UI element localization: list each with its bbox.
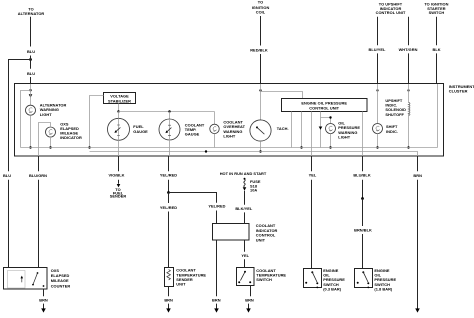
wire YEL to oil switch (311, 180, 313, 269)
wire BLU into cluster (30, 58, 32, 84)
svg-text:STABILIZER: STABILIZER (108, 98, 131, 103)
node junction BLU splice (29, 58, 32, 61)
wire BLU/YEL upper (377, 17, 379, 45)
label ALTERNATOR WARNING LIGHT (40, 103, 67, 117)
connector pin BLU entry (29, 89, 33, 98)
wire oil light feed (321, 118, 331, 124)
lamp oil pressure warning light (326, 124, 336, 134)
label UPSHIFT INDIC. SOLENOID SHUTOFF (385, 98, 406, 117)
wire WHT/GRN feed to solenoid coil (408, 84, 410, 102)
label COOLANT TEMPERATURE SENDER UNIT (176, 268, 206, 287)
node TO ALTERNATOR (18, 7, 45, 16)
label VOLTAGE STABILIZER (108, 94, 131, 104)
node dot shift light on bus (376, 146, 378, 148)
wire OXS bottom to bus (50, 137, 52, 148)
wire BLU/GRN exit (38, 156, 40, 171)
wire BRN/BLK to oil switch (362, 234, 364, 269)
node dot leg2 on bus (300, 146, 302, 148)
wire counter to ground (43, 289, 45, 296)
label COOLANT TEMPERATURE SWITCH (256, 268, 286, 282)
svg-text:(1.8 BAR): (1.8 BAR) (374, 286, 393, 291)
label ENGINE OIL PRESSURE SWITCH (0.3 BAR) (323, 268, 345, 291)
connector pin RED/BLK entry (259, 89, 261, 91)
coolant indicator control unit U (box) (213, 224, 250, 241)
switch engine oil pressure switch (1.8 BAR) (355, 269, 373, 289)
wire branch into control unit (216, 211, 218, 224)
wire printed-circuit feed to control unit (261, 92, 303, 99)
node splice BLU/BLK to BRN/BLK (361, 197, 364, 200)
svg-text:CONTROL UNIT: CONTROL UNIT (309, 106, 339, 111)
wire control unit to BLU/BLK exit (362, 112, 364, 157)
wire RED/BLK lower (260, 54, 262, 84)
svg-text:BLU/GRN: BLU/GRN (29, 173, 47, 178)
wire bus1 (upper printed-circuit bus) (21, 147, 438, 149)
svg-text:BRN: BRN (39, 297, 48, 302)
svg-text:BLU: BLU (27, 49, 35, 54)
wire BLU branch left and down outside cluster (9, 60, 31, 172)
svg-text:CLUSTER: CLUSTER (449, 89, 468, 94)
svg-text:GAUGE: GAUGE (185, 132, 200, 137)
voltage stabilizer U (box) (104, 93, 136, 104)
wire BRN exit (417, 156, 419, 171)
svg-text:(0.3 BAR): (0.3 BAR) (323, 286, 342, 291)
svg-text:YEL: YEL (241, 253, 249, 258)
wire bus2 (lower printed-circuit bus to BRN) (90, 152, 418, 157)
wire WHT/GRN upper (408, 17, 410, 45)
wire BLU/YEL lower (377, 53, 379, 84)
fuse S18 10A (243, 178, 247, 191)
wire printed-circuit BLU entry to warning light (30, 84, 32, 105)
wire stabilizer bottom to feed rail (118, 104, 120, 112)
svg-text:BRN: BRN (164, 297, 173, 302)
wire BRN long ground run (417, 180, 419, 309)
wire solenoid coil to bus (408, 114, 410, 148)
node TO UPSHIFT INDICATOR CONTROL UNIT (376, 1, 406, 15)
instrument cluster box (15, 84, 444, 157)
node dot feed rail at fuel gauge (117, 110, 119, 112)
wire tach to bus2 (260, 141, 262, 151)
wire control unit left leg to ground (216, 240, 218, 296)
svg-text:LIGHT: LIGHT (338, 134, 350, 139)
connector pin WHT/GRN entry (407, 89, 409, 91)
wire overheat light to bus (214, 134, 216, 148)
wire BLU/BLK to splice (362, 180, 364, 199)
wire BLK entry down right side (437, 84, 439, 148)
svg-text:SHUTOFF: SHUTOFF (385, 112, 404, 117)
svg-text:10A: 10A (250, 188, 257, 193)
ground temp switch (246, 304, 251, 313)
wire alternator light to bus (30, 115, 32, 147)
wire control unit leg 1 to bus (291, 112, 293, 148)
wire printed-circuit tach feed (260, 84, 262, 120)
ground control unit (214, 304, 219, 313)
label INSTRUMENT CLUSTER (449, 84, 474, 94)
svg-text:WHT/GRN: WHT/GRN (399, 47, 418, 52)
svg-text:TACH.: TACH. (277, 126, 289, 131)
coil upshift solenoid shutoff (409, 102, 411, 115)
wire VIO/BLK stub to fuel sender (118, 180, 120, 184)
label OIL PRESSURE WARNING LIGHT (338, 121, 360, 140)
node dot stabilizer arm on bus (88, 146, 90, 148)
wire RED/BLK upper (260, 16, 262, 46)
svg-text:UNIT: UNIT (176, 282, 186, 287)
svg-text:SENDER: SENDER (110, 194, 127, 199)
wire control unit leg 2 to bus (301, 112, 303, 148)
svg-text:BLK: BLK (433, 47, 441, 52)
label COOLANT INDICATOR CONTROL UNIT (256, 223, 278, 242)
wire BLK/YEL from fuse (244, 191, 246, 205)
wire YEL exit (311, 156, 313, 171)
wire BLU left outer lower segment (8, 180, 10, 267)
label FUSE S18 10A (250, 179, 261, 193)
wire YEL/RED down segment (168, 193, 170, 204)
svg-text:BLU: BLU (3, 173, 11, 178)
ground sender unit (166, 304, 171, 313)
switch coolant temperature switch (237, 268, 255, 286)
svg-text:SWITCH: SWITCH (429, 10, 445, 15)
label SHIFT INDIC. (386, 124, 398, 134)
svg-text:BRN: BRN (212, 297, 221, 302)
label COOLANT OVERHEAT WARNING LIGHT (223, 120, 245, 139)
wire feed rail horizontal (119, 111, 215, 113)
svg-text:YEL: YEL (309, 173, 317, 178)
gauge coolant temp gauge (159, 112, 180, 141)
svg-text:BLK/YEL: BLK/YEL (235, 206, 253, 211)
wire BLU/BLK exit (362, 156, 364, 171)
node dot on bus2 (205, 150, 207, 152)
wire BLK/YEL into control unit (244, 212, 246, 223)
node dot oil light on bus (329, 146, 331, 148)
wire BLU from alternator (top vertical) (30, 17, 32, 47)
wire BRN/BLK upper (362, 199, 364, 227)
svg-text:GAUGE: GAUGE (133, 129, 148, 134)
svg-text:RED/BLK: RED/BLK (250, 47, 268, 52)
wire control unit leg 3 to YEL exit (311, 112, 313, 157)
wire YEL/RED exit (168, 156, 170, 171)
lamp OXS elapsed mileage indicator (46, 127, 56, 137)
wire YEL into switch (244, 259, 246, 268)
label OXS ELAPSED MILEAGE INDICATOR (60, 121, 82, 140)
node dot alternator on bus (29, 146, 31, 148)
svg-text:BLU/YEL: BLU/YEL (369, 47, 387, 52)
node dot solenoid on bus (407, 146, 409, 148)
svg-text:YEL/RED: YEL/RED (208, 203, 225, 208)
svg-text:BLU/BLK: BLU/BLK (353, 173, 371, 178)
wire YEL control unit to temp switch (244, 240, 246, 252)
lamp shift indicator (373, 124, 383, 134)
svg-text:INDIC.: INDIC. (386, 129, 398, 134)
label FUEL GAUGE (133, 124, 148, 134)
connector pin BLU/YEL entry (376, 89, 378, 91)
wire shift light to bus (377, 134, 379, 148)
svg-text:BLU: BLU (27, 71, 35, 76)
wire YEL/RED to junction (168, 180, 170, 193)
wire BLK lower (436, 53, 438, 84)
wire BLU/GRN to counter (38, 180, 40, 267)
gauge fuel gauge (108, 112, 130, 141)
wire coolant gauge to YEL/RED exit (169, 140, 171, 156)
wire BLK upper (436, 17, 438, 45)
lamp coolant overheat warning light (210, 112, 219, 134)
svg-text:LIGHT: LIGHT (223, 133, 235, 138)
ground BRN wire end (415, 308, 420, 312)
ground counter (41, 304, 46, 313)
svg-text:COUNTER: COUNTER (51, 283, 71, 288)
wire BLU/YEL feed to shift light (377, 84, 379, 124)
node dot feed rail at coolant gauge (168, 110, 170, 112)
arrow to fuel sender (117, 184, 121, 187)
node junction YEL/RED splice (167, 191, 170, 194)
counter OXS elapsed mileage counter (box) (4, 268, 48, 290)
label OXS ELAPSED MILEAGE COUNTER (51, 268, 71, 289)
svg-text:INDICATOR: INDICATOR (60, 135, 82, 140)
switch engine oil pressure switch (0.3 BAR) (304, 269, 322, 289)
svg-text:HOT IN RUN AND START: HOT IN RUN AND START (220, 171, 267, 176)
connector arrow on leg 4 (319, 127, 323, 130)
label COOLANT TEMP. GAUGE (185, 122, 205, 136)
label ENGINE OIL PRESSURE CONTROL UNIT (301, 100, 347, 110)
svg-text:COIL: COIL (256, 9, 266, 14)
label ENGINE OIL PRESSURE SWITCH (1.8 BAR) (374, 268, 396, 291)
svg-text:LIGHT: LIGHT (40, 112, 52, 117)
node TO IGNITION STARTER SWITCH (424, 1, 448, 15)
svg-text:UNIT: UNIT (256, 237, 266, 242)
node TO IGNITION COIL (252, 0, 270, 14)
gauge tachometer (250, 120, 271, 141)
svg-text:ALTERNATOR: ALTERNATOR (18, 11, 45, 16)
wire YEL/RED branch to control unit (169, 193, 217, 203)
svg-text:BRN: BRN (245, 297, 254, 302)
wire OXS top to BLU/GRN exit (39, 123, 51, 157)
svg-text:YEL/RED: YEL/RED (160, 205, 177, 210)
svg-text:BRN/BLK: BRN/BLK (354, 227, 372, 232)
node dot tach on bus2 (259, 150, 261, 152)
svg-text:SWITCH: SWITCH (256, 277, 272, 282)
lamp alternator warning light (26, 105, 36, 115)
wire fuel gauge to VIO/BLK exit (118, 140, 120, 156)
wire VIO/BLK exit (118, 156, 120, 171)
wire control unit leg 4 to bus (320, 112, 322, 148)
wire stabilizer left arm to bus (90, 96, 104, 148)
resistor coolant temperature sender unit (165, 268, 174, 287)
svg-text:BRN: BRN (413, 173, 422, 178)
svg-text:CONTROL UNIT: CONTROL UNIT (376, 10, 406, 15)
engine oil pressure control unit U (box) (282, 99, 368, 112)
node TO FUEL SENDER (110, 187, 127, 198)
wire WHT/GRN lower (408, 53, 410, 84)
svg-text:VIO/BLK: VIO/BLK (108, 173, 124, 178)
svg-text:YEL/RED: YEL/RED (160, 173, 177, 178)
wire printed-circuit left loop to bus (21, 91, 31, 148)
wire temp switch to ground (250, 286, 252, 297)
wire sender unit to ground (168, 287, 170, 297)
wire BLU to junction (30, 56, 32, 60)
wire YEL/RED to sender unit (168, 212, 170, 268)
node dot oil light feed (329, 116, 331, 118)
wire oil light to bus (330, 134, 332, 148)
node dot OXS on bus (49, 146, 51, 148)
